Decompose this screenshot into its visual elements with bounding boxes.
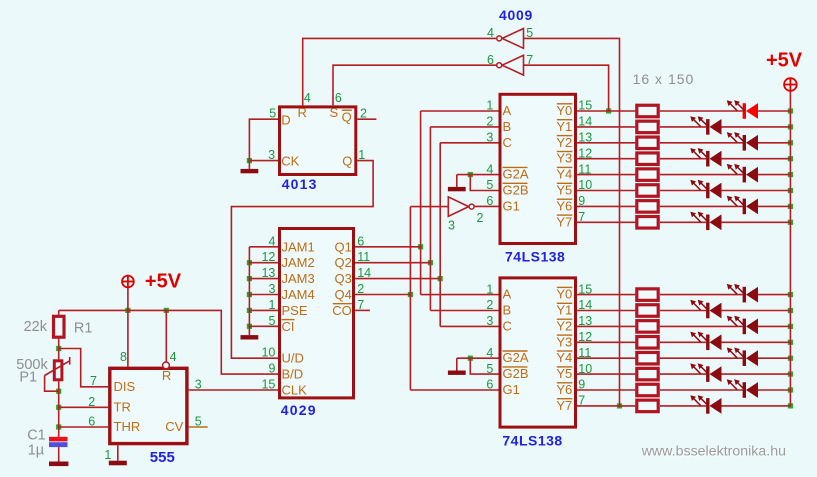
- LED D4: [690, 148, 721, 167]
- svg-text:G2B: G2B: [503, 183, 529, 198]
- node: +5V rail to 555 pin8: [125, 308, 130, 313]
- svg-text:5: 5: [269, 107, 276, 121]
- resistor R4 150: [637, 153, 658, 165]
- resistor R15 150: [637, 384, 658, 396]
- wire top G2A enable junction: [457, 174, 499, 176]
- wire top Y7 to R8 to LED8 to +5V: [577, 221, 635, 223]
- resistor R7 150: [637, 201, 658, 213]
- wire 4029 left pin row 1: [249, 262, 278, 264]
- ground at C1: [49, 462, 68, 467]
- svg-text:Y6: Y6: [556, 198, 572, 213]
- svg-text:7: 7: [90, 374, 97, 388]
- node: Q2 to address bus B: [428, 260, 433, 265]
- svg-text:13: 13: [578, 314, 592, 328]
- wire bottom G2A enable junction: [457, 357, 499, 359]
- svg-text:15: 15: [578, 282, 592, 296]
- svg-text:1: 1: [268, 298, 275, 312]
- svg-text:5: 5: [526, 26, 533, 40]
- svg-text:6: 6: [486, 378, 493, 392]
- svg-text:B: B: [503, 303, 512, 318]
- capacitor C1 1u electrolytic: [49, 437, 68, 447]
- wire bottom Y2 to R11 to LED11 to +5V: [577, 325, 635, 327]
- svg-text:12: 12: [578, 330, 592, 344]
- svg-text:Q: Q: [342, 154, 352, 169]
- svg-text:14: 14: [357, 266, 371, 280]
- ground at top decoder G2A/G2B: [456, 175, 458, 187]
- svg-text:6: 6: [487, 53, 494, 67]
- resistor R2 150: [637, 121, 658, 132]
- wire 555 pin1 to ground: [117, 445, 119, 460]
- svg-text:CK: CK: [281, 154, 299, 169]
- decoder IC5 74LS138 bottom: [500, 278, 576, 427]
- inverter U2C enable: [448, 197, 474, 216]
- svg-text:15: 15: [261, 378, 275, 392]
- svg-text:DIS: DIS: [114, 379, 136, 394]
- svg-text:Y2: Y2: [556, 135, 572, 150]
- svg-text:C1: C1: [27, 427, 46, 443]
- svg-text:4: 4: [486, 346, 493, 360]
- wire bottom Y3 to R12 to LED12 to +5V: [577, 341, 635, 343]
- svg-text:6: 6: [486, 194, 493, 208]
- svg-text:1: 1: [358, 148, 365, 162]
- svg-text:www.bsselektronika.hu: www.bsselektronika.hu: [641, 444, 786, 460]
- node: JAM bus junctions: [247, 260, 252, 265]
- svg-text:Q: Q: [342, 109, 352, 124]
- svg-text:Q1: Q1: [334, 239, 351, 254]
- svg-text:Y2: Y2: [556, 318, 572, 333]
- svg-text:Y0: Y0: [556, 287, 572, 302]
- svg-text:14: 14: [578, 298, 592, 312]
- node: Q1 to address bus A: [418, 244, 423, 249]
- node: P1 wiper junction: [56, 389, 61, 394]
- wire R1 top stub: [58, 310, 60, 314]
- wire bottom Y7 to R16 to LED16 to +5V: [577, 405, 635, 407]
- svg-text:A: A: [503, 103, 512, 118]
- svg-text:9: 9: [578, 194, 585, 208]
- svg-text:1µ: 1µ: [28, 443, 45, 459]
- svg-text:S: S: [330, 105, 339, 120]
- svg-text:74LS138: 74LS138: [505, 248, 565, 264]
- potentiometer P1 500k: [45, 357, 70, 380]
- decoder IC4 74LS138 top: [500, 94, 576, 243]
- wire inverter-2 output to 4013 S pin6: [333, 65, 496, 105]
- svg-text:555: 555: [150, 449, 175, 466]
- wire top Y4 to R5 to LED5 to +5V: [577, 174, 635, 176]
- svg-text:CI: CI: [282, 319, 295, 334]
- svg-text:G1: G1: [503, 382, 520, 397]
- wire top G2B to junction: [470, 175, 498, 191]
- svg-text:3: 3: [268, 148, 275, 162]
- svg-text:13: 13: [578, 131, 592, 145]
- node: 4013 D/CK ground junction: [247, 158, 252, 163]
- resistor R1 150: [637, 105, 658, 117]
- node: top G2A ground junction: [468, 172, 473, 177]
- svg-text:7: 7: [578, 210, 585, 224]
- svg-text:2: 2: [486, 115, 493, 129]
- power +5V supply right: [784, 78, 797, 91]
- wire bottom Y4 to R13 to LED13 to +5V: [577, 357, 635, 359]
- svg-text:+5V: +5V: [145, 270, 182, 292]
- svg-text:11: 11: [578, 162, 591, 176]
- node: +5V rail to 555 pin4: [164, 308, 169, 313]
- svg-text:1: 1: [486, 282, 493, 296]
- inversion bubble 555 pin4: [163, 362, 170, 369]
- svg-text:4: 4: [486, 162, 493, 176]
- wire bottom Y1 to R10 to LED10 to +5V: [577, 310, 635, 312]
- svg-text:7: 7: [357, 298, 364, 312]
- wire 4029 left pin row 2: [249, 278, 278, 280]
- LED D15: [727, 379, 758, 398]
- wire bottom Y6 to R15 to LED15 to +5V: [577, 389, 635, 391]
- svg-text:4009: 4009: [499, 7, 533, 23]
- power +5V supply left: [122, 276, 134, 288]
- wire R1 bottom to P1 top: [58, 339, 60, 360]
- LED D2: [690, 116, 721, 135]
- wire 4013 Q pin1 to 4029 U/D pin10: [231, 161, 373, 359]
- resistor R8 150: [637, 217, 658, 229]
- wire THR pin6: [59, 426, 108, 428]
- LED D1 (lit): [727, 100, 758, 119]
- svg-text:Q3: Q3: [334, 271, 351, 286]
- svg-text:G2B: G2B: [503, 366, 529, 381]
- svg-text:3: 3: [486, 131, 493, 145]
- svg-text:2: 2: [477, 211, 484, 225]
- node: Q4 to enable bus: [408, 292, 413, 297]
- svg-text:R: R: [162, 368, 171, 383]
- svg-text:B/D: B/D: [282, 367, 304, 382]
- svg-text:+5V: +5V: [766, 50, 803, 72]
- svg-text:Y1: Y1: [556, 119, 572, 134]
- svg-text:3: 3: [486, 314, 493, 328]
- svg-text:PSE: PSE: [282, 303, 308, 318]
- ground at JAM bus: [241, 330, 259, 340]
- LED D12: [690, 332, 721, 351]
- resistor R13 150: [637, 352, 658, 364]
- svg-text:6: 6: [88, 415, 95, 429]
- svg-text:11: 11: [357, 250, 370, 264]
- svg-text:3: 3: [195, 377, 202, 391]
- LED D11: [727, 316, 758, 335]
- wire C1 to ground: [58, 447, 60, 461]
- svg-text:C: C: [503, 135, 512, 150]
- ground at 4013 CK: [241, 161, 259, 174]
- svg-text:CO: CO: [332, 303, 352, 318]
- svg-text:THR: THR: [114, 419, 141, 434]
- svg-text:G2A: G2A: [503, 167, 529, 182]
- wire TR pin2: [59, 406, 108, 408]
- LED D6: [690, 180, 721, 199]
- svg-text:10: 10: [261, 346, 275, 360]
- svg-text:22k: 22k: [24, 319, 48, 335]
- wire bottom G2B to junction: [470, 358, 498, 374]
- wire 4013 D pin5 to CK pin3 and ground: [249, 119, 278, 160]
- svg-text:8: 8: [120, 350, 127, 364]
- svg-text:Y5: Y5: [556, 366, 572, 381]
- svg-text:7: 7: [526, 53, 533, 67]
- LED D5: [727, 164, 758, 183]
- svg-text:12: 12: [261, 250, 275, 264]
- svg-text:Y7: Y7: [556, 214, 572, 229]
- node: Q3 to address bus C: [438, 276, 443, 281]
- wire bottom Y5 to R14 to LED14 to +5V: [577, 373, 635, 375]
- svg-text:2: 2: [357, 282, 364, 296]
- ground at 555 pin1: [109, 461, 127, 466]
- wire 4029 left pin row 4: [249, 309, 278, 311]
- resistor R10 150: [637, 305, 658, 317]
- svg-text:4: 4: [268, 234, 275, 248]
- node: R1/P1 junction to DIS: [56, 346, 61, 351]
- svg-text:JAM3: JAM3: [282, 271, 315, 286]
- resistor R5 150: [637, 169, 658, 181]
- svg-text:5: 5: [486, 178, 493, 192]
- wire 4029 left pin row 0: [249, 246, 278, 248]
- wire top Y1 to R2 to LED2 to +5V: [577, 126, 635, 128]
- node: TR junction: [56, 405, 61, 410]
- svg-text:Y5: Y5: [556, 183, 572, 198]
- svg-text:9: 9: [578, 378, 585, 392]
- svg-text:Y4: Y4: [556, 350, 572, 365]
- ground at bottom decoder G2A/G2B: [456, 358, 458, 370]
- svg-text:CLK: CLK: [282, 383, 308, 398]
- svg-text:5: 5: [268, 314, 275, 328]
- LED D7: [727, 196, 758, 215]
- wire P1 bottom through TR THR to C1: [58, 381, 60, 437]
- counter IC2 4029: [280, 229, 354, 398]
- svg-text:3: 3: [448, 219, 455, 233]
- node: bottom Y7/inverter-1 junction: [617, 403, 622, 408]
- svg-text:U/D: U/D: [282, 351, 304, 366]
- svg-text:Y6: Y6: [556, 382, 572, 397]
- wire 4029 left pin row 5: [249, 325, 278, 327]
- wire +5V branch to 555 pin8: [127, 288, 129, 367]
- svg-text:4: 4: [304, 91, 311, 105]
- svg-text:G1: G1: [503, 198, 520, 213]
- svg-text:Q2: Q2: [334, 255, 351, 270]
- svg-text:R1: R1: [74, 320, 93, 336]
- wire inverter-2 input from top Y0: [524, 65, 609, 111]
- svg-text:B: B: [503, 119, 512, 134]
- svg-text:74LS138: 74LS138: [502, 432, 562, 448]
- svg-text:Y4: Y4: [556, 167, 572, 182]
- svg-text:7: 7: [578, 394, 585, 408]
- node: Y0/inverter-2 junction: [606, 108, 611, 113]
- svg-text:6: 6: [335, 91, 342, 105]
- LED D13: [727, 348, 758, 367]
- LED D10: [690, 300, 721, 319]
- resistor R11 150: [637, 321, 658, 333]
- wire inverter-3 output to top G1: [475, 205, 499, 207]
- wire inverter-1 input from bottom Y7: [524, 38, 620, 406]
- svg-text:JAM1: JAM1: [282, 239, 315, 254]
- svg-text:4: 4: [487, 26, 494, 40]
- svg-text:16 x 150: 16 x 150: [633, 71, 695, 87]
- wire 4013 Q-bar pin2 stub: [357, 118, 376, 120]
- inverter U2A 4009 top: [497, 29, 524, 49]
- svg-text:D: D: [281, 113, 290, 128]
- resistor R3 150: [637, 137, 658, 149]
- svg-text:4029: 4029: [281, 402, 317, 418]
- svg-text:6: 6: [357, 234, 364, 248]
- svg-text:2: 2: [360, 107, 367, 121]
- wire +5V branch to 555 pin4: [165, 310, 167, 362]
- LED D9: [727, 284, 758, 303]
- resistor R9 150: [637, 289, 658, 301]
- svg-text:14: 14: [578, 115, 592, 129]
- resistor R14 150: [637, 368, 658, 380]
- wire top Y5 to R6 to LED6 to +5V: [577, 190, 635, 192]
- svg-text:P1: P1: [19, 370, 37, 386]
- wire +5V rail from R1 to 4029 B/D pin9: [59, 310, 278, 374]
- svg-text:1: 1: [486, 99, 493, 113]
- LED D16: [690, 395, 721, 414]
- flip-flop IC1 4013: [280, 107, 356, 175]
- svg-text:Y1: Y1: [556, 303, 572, 318]
- svg-text:G2A: G2A: [503, 350, 529, 365]
- resistor R1 22k: [54, 316, 65, 337]
- svg-text:A: A: [503, 287, 512, 302]
- node: LED +5V rail junctions: [788, 108, 793, 113]
- wire Q1 to decoders A: [355, 246, 421, 248]
- wire top Y0 to R1 to LED1 to +5V: [577, 110, 635, 112]
- LED D8: [690, 212, 721, 231]
- wire junction to DIS pin7: [59, 349, 108, 387]
- wire Q4 to inverter-3 and bottom G1: [355, 294, 410, 296]
- svg-text:5: 5: [486, 362, 493, 376]
- wire 4029 left pin row 3: [249, 294, 278, 296]
- wire inverter-1 output to 4013 R pin4: [303, 38, 497, 105]
- wire CO pin7 stub: [355, 309, 370, 311]
- svg-text:JAM4: JAM4: [282, 287, 315, 302]
- LED D3: [727, 132, 758, 151]
- svg-text:4: 4: [170, 350, 177, 364]
- svg-text:2: 2: [88, 395, 95, 409]
- wire CV pin5 stub: [189, 426, 208, 428]
- svg-text:Y7: Y7: [556, 398, 572, 413]
- svg-text:2: 2: [486, 298, 493, 312]
- resistor R6 150: [637, 185, 658, 197]
- resistor R16 150: [637, 400, 658, 412]
- svg-text:5: 5: [195, 415, 202, 429]
- svg-text:TR: TR: [114, 400, 131, 415]
- svg-text:4013: 4013: [282, 176, 318, 192]
- svg-text:13: 13: [261, 266, 275, 280]
- LED D14: [690, 363, 721, 382]
- svg-text:C: C: [503, 318, 512, 333]
- svg-text:JAM2: JAM2: [282, 255, 315, 270]
- svg-text:11: 11: [578, 346, 591, 360]
- wire Q2 to decoders B: [355, 262, 430, 264]
- wire bottom Y0 to R9 to LED9 to +5V: [577, 294, 635, 296]
- wire 555 OUT pin3 to 4029 CLK pin15: [189, 389, 278, 391]
- svg-text:R: R: [298, 105, 307, 120]
- timer IC3 555: [110, 368, 187, 443]
- wire JAM ground bus: [248, 247, 250, 331]
- wire top Y6 to R7 to LED7 to +5V: [577, 205, 635, 207]
- wire top Y3 to R4 to LED4 to +5V: [577, 158, 635, 160]
- svg-text:Y3: Y3: [556, 151, 572, 166]
- svg-text:3: 3: [268, 282, 275, 296]
- svg-text:10: 10: [578, 362, 592, 376]
- svg-text:12: 12: [578, 146, 592, 160]
- wire top Y2 to R3 to LED3 to +5V: [577, 142, 635, 144]
- svg-text:10: 10: [578, 178, 592, 192]
- node: bottom G2A ground junction: [468, 356, 473, 361]
- svg-text:Y3: Y3: [556, 334, 572, 349]
- svg-text:CV: CV: [165, 419, 183, 434]
- wire +5V LED rail: [789, 91, 791, 406]
- resistor R12 150: [637, 337, 658, 349]
- node: THR junction: [56, 424, 61, 429]
- inverter U2B 4009 second: [497, 55, 524, 75]
- svg-text:Q4: Q4: [334, 287, 351, 302]
- wire P1 wiper return: [45, 376, 59, 392]
- svg-text:1: 1: [104, 448, 111, 462]
- wire Q3 to decoders C: [355, 278, 440, 280]
- svg-text:15: 15: [578, 99, 592, 113]
- svg-text:9: 9: [268, 362, 275, 376]
- svg-text:Y0: Y0: [556, 103, 572, 118]
